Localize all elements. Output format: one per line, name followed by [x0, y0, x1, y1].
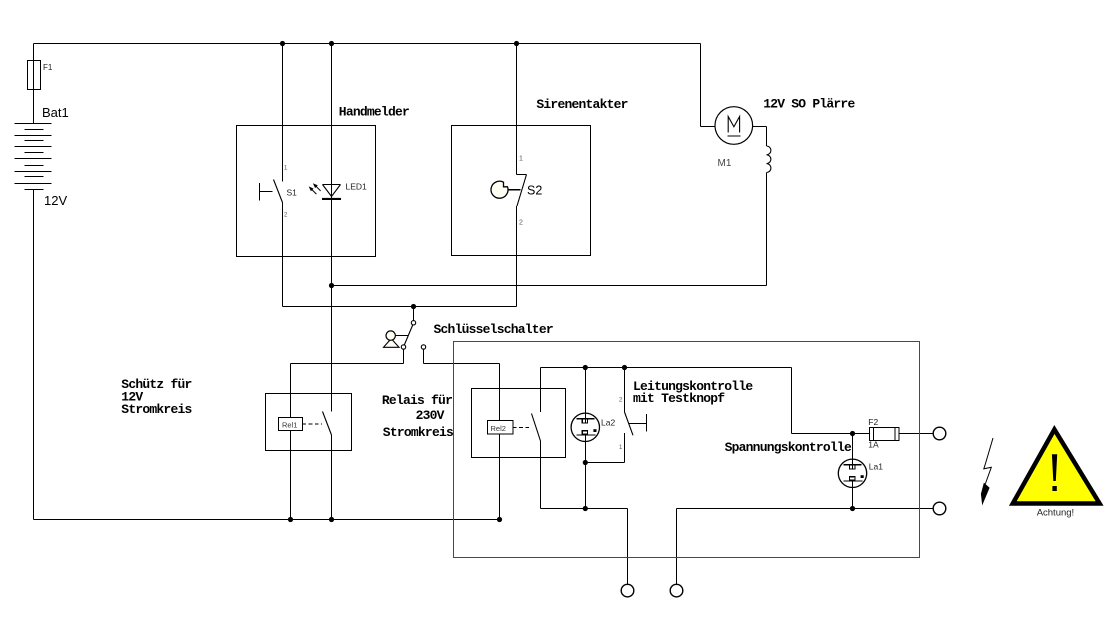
svg-text:12V SO Plärre: 12V SO Plärre [763, 97, 855, 112]
LED LED1 [309, 183, 341, 200]
wire LED1 below Rel1 contact to bottom rail [331, 435, 333, 520]
node Rel1 contact bottom rail [329, 517, 334, 522]
node La2 bottom [583, 460, 588, 465]
battery Bat1 [15, 124, 52, 190]
wire La1 bottom lead [852, 481, 854, 509]
terminal pad bottom 1 [621, 584, 634, 597]
svg-text:2: 2 [519, 220, 523, 227]
wire node row S1-S2 y306 [283, 306, 517, 308]
svg-text:S2: S2 [527, 184, 542, 198]
pin S1-1 [284, 166, 288, 172]
label La1 [869, 462, 883, 472]
lightning arrow [981, 438, 993, 505]
wire bottom run to right terminal [677, 508, 934, 510]
svg-text:Spannungskontrolle: Spannungskontrolle [725, 440, 852, 455]
pushbutton S1 [260, 180, 283, 203]
svg-text:Rel2: Rel2 [491, 424, 506, 433]
relay contact Rel2 [513, 414, 541, 442]
wire F2 to terminal [899, 433, 933, 435]
node La2 lower run [583, 506, 588, 511]
motor M1 [715, 107, 753, 145]
label La2 [601, 417, 615, 427]
cam switch S2 [491, 175, 526, 207]
label LED1 [346, 182, 368, 192]
wire battery minus down left side [33, 190, 35, 520]
node test button top rail [622, 365, 627, 370]
pin testbutton-2 [619, 398, 623, 404]
wire F1 top lead [33, 44, 35, 61]
node La2 top rail [583, 365, 588, 370]
svg-text:Schlüsselschalter: Schlüsselschalter [434, 322, 553, 337]
key switch Schluesselschalter [384, 321, 426, 350]
label M1 [718, 158, 732, 169]
wire rail to F2 [792, 368, 870, 434]
terminal pad right bottom [933, 502, 946, 515]
svg-text:S1: S1 [287, 188, 298, 198]
label F2 [868, 417, 878, 427]
relay coil Rel1 [279, 418, 303, 431]
wire S2 bottom [516, 206, 518, 307]
wire La2 junction down [584, 463, 586, 509]
label 12V [44, 193, 67, 208]
svg-text:12V: 12V [44, 193, 67, 208]
label Handmelder [339, 105, 409, 120]
pin testbutton-1 [619, 445, 623, 451]
wire Rel2 contact from rail [540, 368, 542, 413]
label Rel2 [491, 424, 506, 433]
label Spannungskontrolle [725, 440, 852, 455]
node key switch [411, 304, 416, 309]
svg-text:La1: La1 [869, 462, 883, 472]
node La1 bottom [850, 506, 855, 511]
node Rel1 coil bottom rail [288, 517, 293, 522]
node bottom rail end [497, 517, 502, 522]
wire key switch left pin to Rel1 [291, 349, 404, 417]
Sirenentakter enclosure box [452, 126, 591, 256]
wire Rel2 coil to bottom rail end [499, 434, 501, 520]
svg-text:Stromkreis: Stromkreis [121, 402, 192, 417]
label Relais fuer 230V Stromkreis [382, 393, 454, 440]
Handmelder enclosure box [237, 126, 376, 257]
lamp La2 [571, 413, 599, 441]
node S2 top [514, 41, 519, 46]
node La1 top [850, 431, 855, 436]
wire red-box top rail y367 [541, 367, 792, 369]
terminal pad bottom 2 [670, 584, 683, 597]
Rel2 enclosure box [472, 389, 566, 458]
wire key switch top [413, 307, 415, 321]
node LED1 siren branch [329, 283, 334, 288]
wire La2 bottom [584, 435, 586, 463]
label Rel1 [282, 421, 297, 430]
fuse F2 [870, 428, 900, 441]
wire terminal 2 riser [676, 509, 678, 585]
relay coil Rel2 [488, 421, 514, 435]
label Achtung! [1037, 507, 1075, 518]
svg-text:F2: F2 [868, 417, 878, 427]
wire La1 top lead [852, 434, 854, 470]
svg-text:Rel1: Rel1 [282, 421, 297, 430]
node S1 top [280, 41, 285, 46]
wire siren branch y285 to speaker coil [332, 173, 767, 286]
svg-text:1: 1 [519, 156, 523, 163]
node LED1 top [329, 41, 334, 46]
svg-text:Bat1: Bat1 [42, 105, 69, 120]
wire S1 bottom to node row [282, 203, 284, 307]
svg-text:Stromkreis: Stromkreis [383, 425, 454, 440]
svg-text:LED1: LED1 [346, 182, 368, 192]
svg-text:M1: M1 [718, 158, 732, 169]
pin S1-2 [284, 213, 288, 219]
wire S2 top drop [517, 44, 527, 175]
wire F1 to battery top [33, 90, 35, 124]
wire Rel2 contact bottom run to terminal 1 [541, 441, 628, 584]
wire Rel1 coil to bottom rail [290, 431, 292, 520]
red boundary box Leitungskontrolle [454, 342, 920, 558]
label Sirenentakter [536, 97, 627, 112]
wire bottom rail [34, 519, 500, 521]
wire S1 top drop [282, 44, 284, 182]
pin S2-1 [519, 156, 523, 163]
svg-text:230V: 230V [416, 408, 445, 423]
label 1A [868, 440, 879, 450]
wire key switch right pin to Rel2 [424, 349, 500, 420]
label S2 [527, 184, 542, 198]
wire La2 to test button bottom [585, 433, 624, 463]
relay contact Rel1 [303, 412, 332, 436]
wire speaker coil top to motor right [753, 127, 767, 147]
label Leitungskontrolle mit Testknopf [633, 379, 753, 406]
wire test button top [624, 368, 626, 413]
terminal pad right top [933, 427, 946, 440]
label Bat1 [42, 105, 69, 120]
svg-text:Achtung!: Achtung! [1037, 507, 1075, 518]
svg-text:mit Testknopf: mit Testknopf [633, 391, 725, 406]
wire top rail from battery plus to motor [34, 44, 716, 127]
warning triangle Achtung [1013, 430, 1100, 504]
label 12V SO Plaerre [763, 97, 855, 112]
svg-text:Sirenentakter: Sirenentakter [536, 97, 627, 112]
svg-text:F1: F1 [43, 63, 53, 72]
svg-text:1A: 1A [868, 440, 879, 450]
speaker coil [767, 146, 771, 173]
label S1 [287, 188, 298, 198]
label F1 [43, 63, 53, 72]
svg-text:Handmelder: Handmelder [339, 105, 409, 120]
lamp La1 [838, 459, 866, 487]
pin S2-2 [519, 220, 523, 227]
svg-text:La2: La2 [601, 417, 615, 427]
wire La2 top [584, 368, 586, 424]
svg-text:Relais für: Relais für [382, 393, 452, 408]
wire LED1 drop from top rail [331, 44, 333, 412]
label Schluesselschalter [434, 322, 553, 337]
fuse F1 [28, 61, 41, 90]
test button mit Testknopf [625, 412, 647, 435]
label Schuetz fuer 12V Stromkreis [121, 377, 192, 417]
Rel1 enclosure box [266, 394, 352, 451]
